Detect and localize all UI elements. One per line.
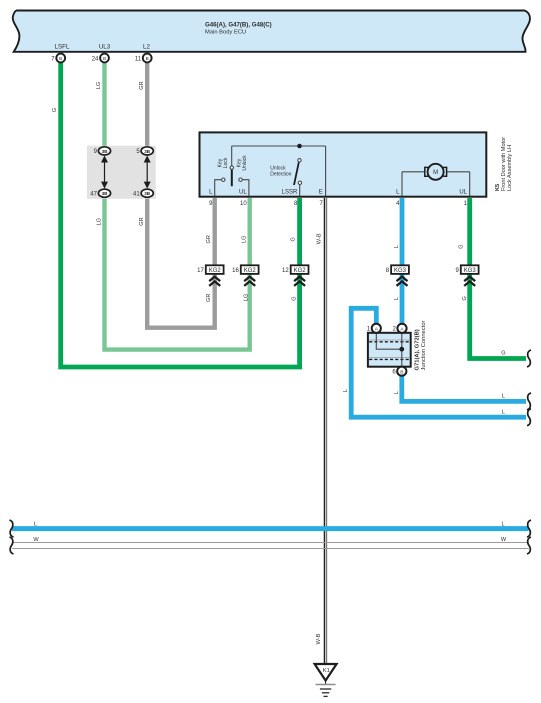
key unlock contact circle	[239, 178, 242, 181]
svg-text:GR: GR	[206, 235, 212, 243]
label Key Unlock	[237, 155, 248, 171]
inner wire from pin 10 UL to key unlock contact	[243, 180, 249, 196]
svg-text:G71(A), G72(B): G71(A), G72(B)	[415, 329, 421, 370]
wire L from junction pin 6 B down and right to edge	[402, 373, 526, 401]
break symbol W bus right	[527, 537, 531, 554]
wire G from ECU pin 7 LSFL down and right to KG2-12	[61, 60, 300, 367]
svg-text:G: G	[52, 108, 58, 112]
svg-text:M: M	[433, 170, 438, 176]
svg-text:1: 1	[367, 327, 371, 333]
svg-text:Lock Assembly LH: Lock Assembly LH	[507, 145, 513, 191]
svg-text:L: L	[394, 297, 400, 300]
connector KG3 pin 9	[455, 265, 478, 274]
label Unlock Detection	[270, 165, 291, 177]
inner E drop wire	[325, 146, 327, 196]
connector pin 5 3B	[136, 147, 153, 155]
inner wire from pin 9 L to key lock contact	[215, 180, 222, 196]
svg-text:KG2: KG2	[244, 268, 257, 274]
chevron under KG2-17	[209, 277, 220, 286]
connector pin 9 3B	[94, 147, 111, 155]
svg-text:Main Body ECU: Main Body ECU	[205, 29, 246, 35]
shield junction block	[87, 146, 156, 199]
junction pin 6 B	[392, 367, 406, 376]
ground symbol K1	[315, 664, 337, 696]
svg-text:L: L	[343, 389, 349, 392]
key lock switch blade	[231, 170, 233, 187]
wire L from pin 4 down to junction connector pin 2	[400, 198, 405, 325]
svg-text:2: 2	[393, 327, 397, 333]
ECU pin 24 B	[92, 54, 109, 63]
chevron under KG2-12	[294, 277, 305, 286]
chevron under KG2-16	[244, 277, 255, 286]
svg-text:KG3: KG3	[464, 268, 477, 274]
svg-text:16: 16	[232, 268, 239, 274]
component label K5 Front Door with Motor Lock Assembly LH	[495, 137, 513, 191]
wire LG from ECU pin 24 UL3 to shield connector	[102, 60, 106, 151]
label Key Lock	[218, 157, 229, 168]
bottom bus wire W white	[12, 543, 529, 549]
svg-text:UL3: UL3	[99, 44, 111, 51]
junction pin 2 A	[393, 324, 407, 333]
svg-text:L2: L2	[143, 44, 150, 51]
connector pin 47 3B	[90, 189, 110, 197]
svg-text:GR: GR	[139, 217, 145, 225]
svg-text:KG3: KG3	[394, 268, 407, 274]
svg-text:UL: UL	[459, 190, 467, 196]
junction connector label	[415, 320, 428, 370]
front door lock assembly box	[200, 132, 487, 196]
connector KG3 pin 8	[386, 265, 409, 274]
svg-text:9: 9	[455, 268, 459, 274]
svg-text:4: 4	[396, 201, 400, 207]
wire LG from shield connector down and right to KG2-16 then up to pin 10	[105, 193, 250, 350]
break symbol blue lower right	[527, 409, 531, 426]
svg-text:GR: GR	[206, 294, 212, 302]
svg-text:LG: LG	[244, 294, 250, 301]
wire G from pin 1 UL down to KG3-9 and right edge	[470, 198, 526, 359]
svg-text:B: B	[400, 369, 403, 375]
svg-text:L: L	[502, 394, 505, 400]
svg-text:Lock: Lock	[223, 157, 229, 168]
unlock detection switch blade	[294, 162, 299, 185]
svg-text:G: G	[292, 296, 298, 300]
key lock contact circle	[222, 178, 225, 181]
ECU pin 7 B	[51, 54, 65, 63]
svg-text:3B: 3B	[102, 191, 109, 196]
connector pin 41 3B	[133, 189, 153, 197]
inner wire lower terminal to pin 8 LSSR	[299, 185, 301, 197]
svg-text:Detection: Detection	[270, 171, 291, 177]
motor M	[402, 164, 470, 196]
ECU pin 11 B	[135, 54, 152, 63]
svg-text:G: G	[462, 296, 468, 300]
svg-text:8: 8	[386, 268, 390, 274]
svg-text:3B: 3B	[144, 191, 151, 196]
svg-text:LSSR: LSSR	[282, 190, 298, 196]
svg-text:B: B	[146, 56, 149, 61]
chevron under KG3-8	[397, 277, 408, 286]
svg-text:LG: LG	[242, 236, 248, 243]
svg-text:W-B: W-B	[316, 633, 322, 644]
svg-text:7: 7	[319, 201, 323, 207]
arrow link between 3B pins right column	[144, 156, 151, 189]
svg-text:Junction Connector: Junction Connector	[421, 320, 427, 370]
svg-text:17: 17	[197, 268, 204, 274]
svg-text:41: 41	[133, 192, 140, 198]
key lock switch terminal circle	[230, 166, 233, 169]
svg-text:11: 11	[135, 56, 142, 62]
svg-text:W: W	[33, 537, 39, 543]
chevron under KG3-9	[464, 277, 475, 286]
svg-text:W-B: W-B	[317, 233, 323, 244]
svg-text:E: E	[319, 190, 323, 196]
svg-text:LG: LG	[97, 218, 103, 225]
svg-text:L: L	[394, 391, 400, 394]
svg-text:Front Door with Motor: Front Door with Motor	[501, 137, 507, 191]
svg-text:12: 12	[282, 268, 289, 274]
unlock detection switch upper terminal	[298, 159, 301, 162]
svg-text:L: L	[394, 245, 400, 248]
svg-text:10: 10	[240, 201, 247, 207]
wire GR from ECU pin 11 L2 to shield connector	[145, 60, 149, 151]
break symbol blue bus right	[527, 520, 531, 537]
svg-text:3B: 3B	[144, 149, 151, 154]
svg-text:G46(A), G47(B), G48(C): G46(A), G47(B), G48(C)	[205, 21, 272, 28]
svg-text:KG2: KG2	[294, 268, 307, 274]
junction pin 1 A	[367, 324, 381, 333]
svg-text:L: L	[502, 409, 505, 415]
svg-text:7: 7	[51, 56, 55, 62]
break symbol blue upper right	[527, 393, 531, 410]
svg-text:B: B	[59, 56, 62, 61]
svg-text:GR: GR	[139, 81, 145, 89]
svg-text:LG: LG	[96, 82, 102, 89]
svg-text:6: 6	[392, 370, 396, 376]
key lock switch common drop	[231, 146, 233, 166]
svg-text:K5: K5	[495, 184, 501, 191]
unlock detection lower terminal	[298, 181, 301, 184]
svg-text:Unlock: Unlock	[270, 165, 286, 171]
break symbol blue bus left	[10, 520, 14, 537]
svg-text:K1: K1	[323, 668, 330, 674]
svg-text:G: G	[501, 351, 505, 357]
junction dot node	[297, 144, 302, 149]
connector KG2 pin 16	[232, 265, 258, 274]
svg-text:Unlock: Unlock	[242, 155, 248, 171]
svg-text:KG2: KG2	[209, 268, 222, 274]
svg-text:LSFL: LSFL	[55, 44, 70, 51]
svg-text:L: L	[501, 521, 504, 527]
connector KG2 pin 12	[282, 265, 308, 274]
svg-text:24: 24	[92, 56, 99, 62]
svg-text:47: 47	[90, 192, 97, 198]
ECU banner G46(A), G47(B), G48(C) Main Body ECU	[13, 11, 530, 52]
inner top rail	[232, 145, 326, 147]
svg-text:G: G	[459, 244, 465, 248]
arrow link between 3B pins left column	[101, 156, 108, 189]
svg-text:G: G	[291, 237, 297, 241]
wire L loop from junction pin 1 left and down to right edge	[351, 308, 526, 417]
junction connector G71(A), G72(B)	[368, 333, 411, 367]
break symbol W bus left	[10, 537, 14, 554]
svg-text:B: B	[103, 56, 106, 61]
break symbol green wire right	[527, 350, 531, 367]
svg-text:UL: UL	[239, 190, 247, 196]
svg-text:W: W	[501, 537, 507, 543]
svg-text:L: L	[34, 521, 37, 527]
wire W-B from pin 7 E down to ground K1	[325, 198, 327, 664]
bottom bus wire L blue	[12, 526, 529, 531]
wire GR from shield connector down and right to KG2-17 then up to pin 9	[147, 193, 215, 328]
connector KG2 pin 17	[197, 265, 223, 274]
svg-text:3B: 3B	[102, 149, 109, 154]
svg-text:1: 1	[464, 201, 468, 207]
